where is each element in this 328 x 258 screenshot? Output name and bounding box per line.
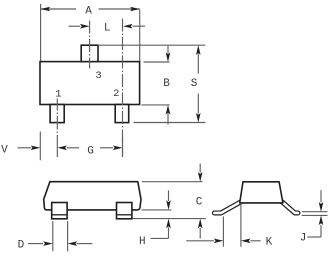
extension line, body bottom (B)	[142, 104, 170, 106]
svg-text:C: C	[196, 197, 203, 209]
svg-text:G: G	[87, 146, 94, 158]
shared arrow V right / G left	[57, 146, 67, 151]
extension line, body left edge (V)	[39, 132, 41, 161]
dimension L left arrow	[80, 24, 90, 29]
svg-text:V: V	[1, 144, 8, 156]
dimension D left arrow	[28, 243, 43, 245]
extension line, lead top (J)	[302, 211, 328, 213]
package body, top view	[40, 62, 140, 105]
extension line, body top side view (C)	[142, 181, 203, 183]
center line, pin 2	[122, 19, 124, 158]
extension line, tab top (S)	[98, 44, 206, 46]
svg-text:L: L	[104, 23, 111, 35]
center line, pin 3 tab	[89, 21, 91, 69]
dimension G right arrow	[100, 147, 113, 149]
dimension S top arrow	[196, 45, 201, 55]
lead, end view left	[214, 202, 241, 213]
dimension line A (right segment)	[99, 8, 140, 10]
dimension K left arrow	[186, 240, 214, 242]
dimension C top arrow	[198, 172, 203, 182]
extension line, lead foot bend (K)	[222, 216, 224, 246]
extension line, seating plane (C,H)	[133, 218, 206, 220]
lead foot line, pin 1 side view	[52, 214, 67, 216]
lead, end view right	[282, 202, 298, 213]
dimension H top arrow	[166, 200, 171, 210]
svg-text:B: B	[163, 78, 170, 90]
dimension H bottom arrow	[166, 219, 171, 229]
svg-text:3: 3	[95, 70, 101, 82]
extension line, body top (B)	[144, 61, 170, 63]
dimension C bottom arrow	[198, 219, 203, 229]
dimension L right arrow	[123, 24, 133, 29]
leader line H	[151, 237, 169, 239]
dimension line A (left segment)	[41, 8, 76, 10]
dimension J top arrow	[319, 202, 324, 212]
svg-text:D: D	[18, 239, 25, 251]
dimension B top arrow	[166, 52, 171, 62]
pin 3 tab, top view	[81, 45, 98, 61]
pin 1, top view	[50, 105, 64, 123]
pin 1, side view	[52, 203, 67, 219]
dimension V left arrow	[18, 147, 32, 149]
pin 2, side view	[117, 203, 132, 219]
extension line, body bottom side view (H)	[142, 209, 172, 211]
dimension S bottom arrow	[196, 113, 201, 123]
dimension K right arrow	[241, 239, 251, 244]
svg-text:J: J	[300, 233, 307, 245]
lead foot line, pin 2 side view	[117, 214, 132, 216]
svg-text:2: 2	[113, 88, 119, 100]
svg-text:A: A	[85, 5, 92, 17]
svg-text:K: K	[266, 236, 273, 248]
extension line, body edge (K)	[240, 203, 242, 247]
dimension D right arrow	[68, 241, 78, 246]
svg-text:S: S	[191, 78, 198, 90]
dimension J bottom arrow	[319, 215, 324, 225]
extension line, pin bottom (S)	[134, 122, 206, 124]
extension line, pin right edge (D)	[67, 221, 69, 251]
dimension B bottom arrow	[166, 105, 171, 115]
package body, side view	[44, 182, 141, 210]
svg-text:1: 1	[55, 88, 61, 100]
center line, pin 1	[56, 99, 58, 111]
package body, end view	[240, 182, 283, 203]
pin 2, top view	[115, 105, 129, 123]
center line, pin 2 lower solid part	[122, 135, 124, 157]
extension line, pin left edge (D)	[52, 221, 54, 251]
extension line, body left edge (A)	[40, 4, 42, 62]
extension line, lead bottom (J)	[302, 214, 328, 216]
leader line J	[308, 236, 322, 238]
extension line, body right edge (A)	[139, 10, 141, 62]
svg-text:H: H	[139, 236, 146, 248]
